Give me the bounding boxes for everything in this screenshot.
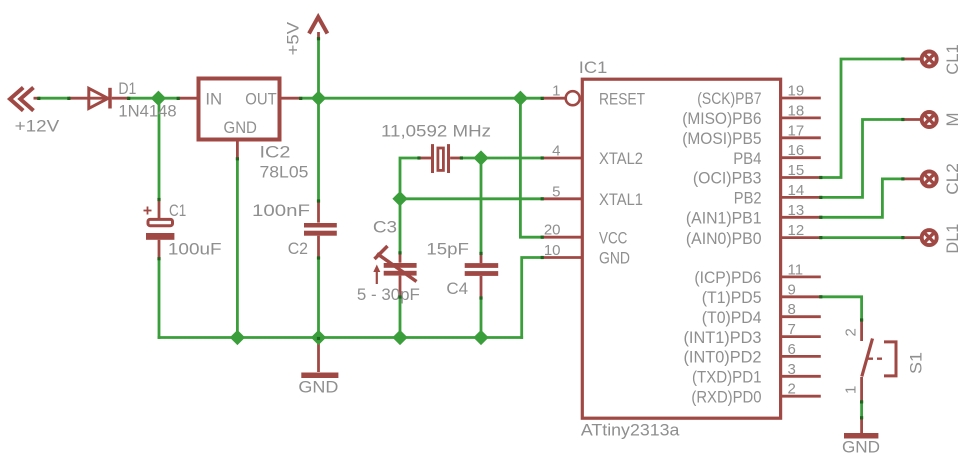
svg-text:13: 13 [788, 202, 805, 219]
connector M [903, 112, 937, 127]
svg-text:(T0)PD4: (T0)PD4 [702, 308, 762, 327]
svg-text:14: 14 [788, 182, 805, 199]
svg-text:18: 18 [788, 102, 805, 119]
svg-text:C4: C4 [446, 279, 468, 298]
wire +5V vertical [317, 39, 320, 201]
pin 17 stub [781, 136, 821, 139]
pin 15 stub [781, 176, 821, 179]
supply +12V symbol [10, 88, 40, 111]
IC1 pin 5 stub [542, 197, 582, 200]
op IC1 box [582, 79, 780, 418]
wire pin 9 to switch [821, 297, 862, 320]
wire OUT to RESET pin [301, 97, 543, 100]
svg-text:XTAL2: XTAL2 [599, 149, 643, 168]
svg-text:XTAL1: XTAL1 [599, 190, 643, 209]
svg-text:(SCK)PB7: (SCK)PB7 [697, 89, 761, 108]
junction node XTAL2 [473, 150, 488, 165]
svg-text:17: 17 [788, 122, 805, 139]
wire pin 15 to CL1 [821, 59, 903, 178]
svg-text:VCC: VCC [599, 228, 627, 247]
connector CL2 [903, 171, 937, 186]
svg-text:1: 1 [552, 83, 560, 100]
pin 6 stub [781, 355, 821, 358]
svg-text:100nF: 100nF [252, 201, 310, 220]
svg-text:ATtiny2313a: ATtiny2313a [581, 421, 680, 440]
svg-text:2: 2 [788, 381, 796, 398]
svg-text:C1: C1 [169, 201, 186, 220]
wire C1 bottom to rail [158, 259, 161, 339]
pin 2 stub [781, 395, 821, 398]
pin 18 stub [781, 117, 821, 120]
svg-text:19: 19 [788, 83, 805, 100]
IC1 pin 20 stub [542, 236, 582, 239]
svg-text:3: 3 [788, 361, 796, 378]
wire XTAL2 line to pin 4 [461, 157, 542, 160]
IC1 right pin stubs [781, 98, 821, 396]
svg-text:CL2: CL2 [943, 163, 962, 195]
wire GND bottom rail [158, 336, 523, 339]
svg-text:15pF: 15pF [426, 239, 469, 258]
IC1 right pin names [682, 89, 761, 406]
svg-text:5 - 30pF: 5 - 30pF [357, 285, 420, 304]
IC2 pin IN stub [178, 97, 198, 100]
junction node rail-1 [230, 330, 245, 345]
svg-text:+5V: +5V [284, 21, 303, 55]
ground symbol mid [301, 338, 338, 376]
svg-text:PB2: PB2 [734, 189, 762, 208]
svg-text:+12V: +12V [15, 116, 60, 135]
wire switch to GND [860, 402, 863, 418]
crystal Q1 [419, 144, 461, 173]
svg-text:M: M [943, 113, 962, 127]
svg-text:5: 5 [552, 183, 560, 200]
svg-text:7: 7 [788, 321, 796, 338]
wire VCC net to pin 20 [520, 98, 542, 237]
svg-text:(OCI)PB3: (OCI)PB3 [693, 169, 762, 188]
junction node rail-2 [311, 330, 326, 345]
svg-text:PB4: PB4 [733, 149, 761, 168]
svg-text:(INT0)PD2: (INT0)PD2 [684, 348, 762, 367]
capacitor C4 [465, 253, 499, 297]
svg-text:10: 10 [544, 242, 561, 259]
pin 16 stub [781, 156, 821, 159]
pin 3 stub [781, 375, 821, 378]
wire C4 bottom [480, 298, 483, 338]
svg-text:GND: GND [298, 377, 338, 396]
wire C3 bottom [399, 297, 402, 338]
svg-text:1: 1 [843, 386, 860, 394]
svg-text:78L05: 78L05 [260, 163, 309, 182]
svg-text:(AIN1)PB1: (AIN1)PB1 [686, 209, 762, 228]
wire XTAL1 line to pin 5 [400, 197, 542, 200]
capacitor C2 [304, 201, 337, 258]
wire pin 13 to CL2 [821, 179, 903, 217]
IC1 left pin names [599, 89, 645, 267]
svg-text:2: 2 [843, 328, 860, 336]
svg-text:(T1)PD5: (T1)PD5 [702, 288, 762, 307]
IC2 pin GND stub [236, 140, 239, 159]
svg-text:C3: C3 [373, 217, 397, 236]
junction node rail-4 [473, 330, 488, 345]
pin 9 stub [781, 295, 821, 298]
svg-text:DL1: DL1 [943, 224, 962, 254]
wire GND pin 10 net [522, 258, 543, 339]
svg-text:9: 9 [788, 281, 796, 298]
svg-text:(RXD)PD0: (RXD)PD0 [691, 387, 761, 406]
svg-text:GND: GND [224, 118, 257, 137]
junction node main-1 [151, 91, 166, 106]
svg-text:C2: C2 [288, 239, 308, 258]
wire C2 bottom to rail [317, 258, 320, 338]
pin 13 stub [781, 216, 821, 219]
wire IC2 GND drop [236, 159, 239, 338]
svg-text:12: 12 [788, 222, 805, 239]
svg-text:20: 20 [544, 222, 561, 239]
wire C4 top [480, 158, 483, 253]
svg-text:(TXD)PD1: (TXD)PD1 [692, 368, 762, 387]
svg-text:RESET: RESET [599, 89, 645, 108]
svg-text:IC1: IC1 [579, 58, 608, 77]
svg-text:8: 8 [788, 301, 796, 318]
junction node main-3 [513, 91, 528, 106]
IC1 pin 4 stub [542, 157, 582, 160]
svg-text:11,0592 MHz: 11,0592 MHz [381, 122, 491, 141]
wire +12V to diode and IC2 IN [39, 97, 70, 100]
svg-text:1N4148: 1N4148 [118, 101, 176, 120]
svg-text:(AIN0)PB0: (AIN0)PB0 [686, 229, 762, 248]
wire pin 14 to M [821, 120, 903, 198]
svg-text:(MISO)PB6: (MISO)PB6 [682, 109, 761, 128]
IC1 right pin numbers [788, 83, 805, 398]
pin 14 stub [781, 196, 821, 199]
svg-text:100uF: 100uF [168, 239, 222, 258]
svg-text:GND: GND [599, 249, 630, 268]
wire pin 12 to DL1 [821, 236, 903, 239]
wire C1 top branch [158, 98, 161, 199]
connector CL1 [903, 52, 937, 67]
svg-text:11: 11 [788, 261, 804, 278]
pin connection ticks [37, 37, 904, 419]
junction node main-2 [311, 91, 326, 106]
junction node XTAL1 [392, 191, 407, 206]
ground symbol switch [844, 418, 878, 436]
pin 12 stub [781, 236, 821, 239]
svg-text:(INT1)PD3: (INT1)PD3 [684, 328, 762, 347]
IC1 left pin numbers [544, 83, 561, 259]
svg-text:(MOSI)PB5: (MOSI)PB5 [682, 129, 761, 148]
svg-text:IN: IN [205, 90, 222, 109]
svg-text:IC2: IC2 [260, 143, 291, 162]
pin 19 stub [781, 97, 821, 100]
svg-text:CL1: CL1 [943, 44, 962, 75]
IC2 pin OUT stub [280, 97, 301, 100]
junction node rail-3 [392, 330, 407, 345]
diode D1 [69, 88, 129, 109]
wire C3 top [399, 199, 402, 253]
pin 11 stub [781, 275, 821, 278]
IC1 pin 1 RESET stub and bubble [542, 91, 580, 105]
svg-text:6: 6 [788, 341, 796, 358]
svg-text:(ICP)PD6: (ICP)PD6 [694, 268, 761, 287]
svg-text:4: 4 [552, 143, 560, 160]
wire crystal left to XTAL1 [400, 158, 419, 199]
trimmer capacitor C3 [373, 246, 416, 297]
supply +5V symbol [309, 17, 327, 39]
capacitor C1 polarized [144, 199, 175, 259]
pushbutton S1 [862, 320, 896, 402]
svg-text:D1: D1 [118, 79, 136, 98]
svg-text:15: 15 [788, 162, 805, 179]
pin 7 stub [781, 335, 821, 338]
svg-text:OUT: OUT [245, 90, 276, 109]
regulator IC2 box [199, 79, 280, 140]
pin 8 stub [781, 315, 821, 318]
svg-text:S1: S1 [907, 352, 926, 374]
svg-text:16: 16 [788, 142, 805, 159]
IC1 pin 10 stub [542, 256, 582, 259]
connector DL1 [903, 230, 937, 245]
svg-text:GND: GND [842, 437, 880, 456]
